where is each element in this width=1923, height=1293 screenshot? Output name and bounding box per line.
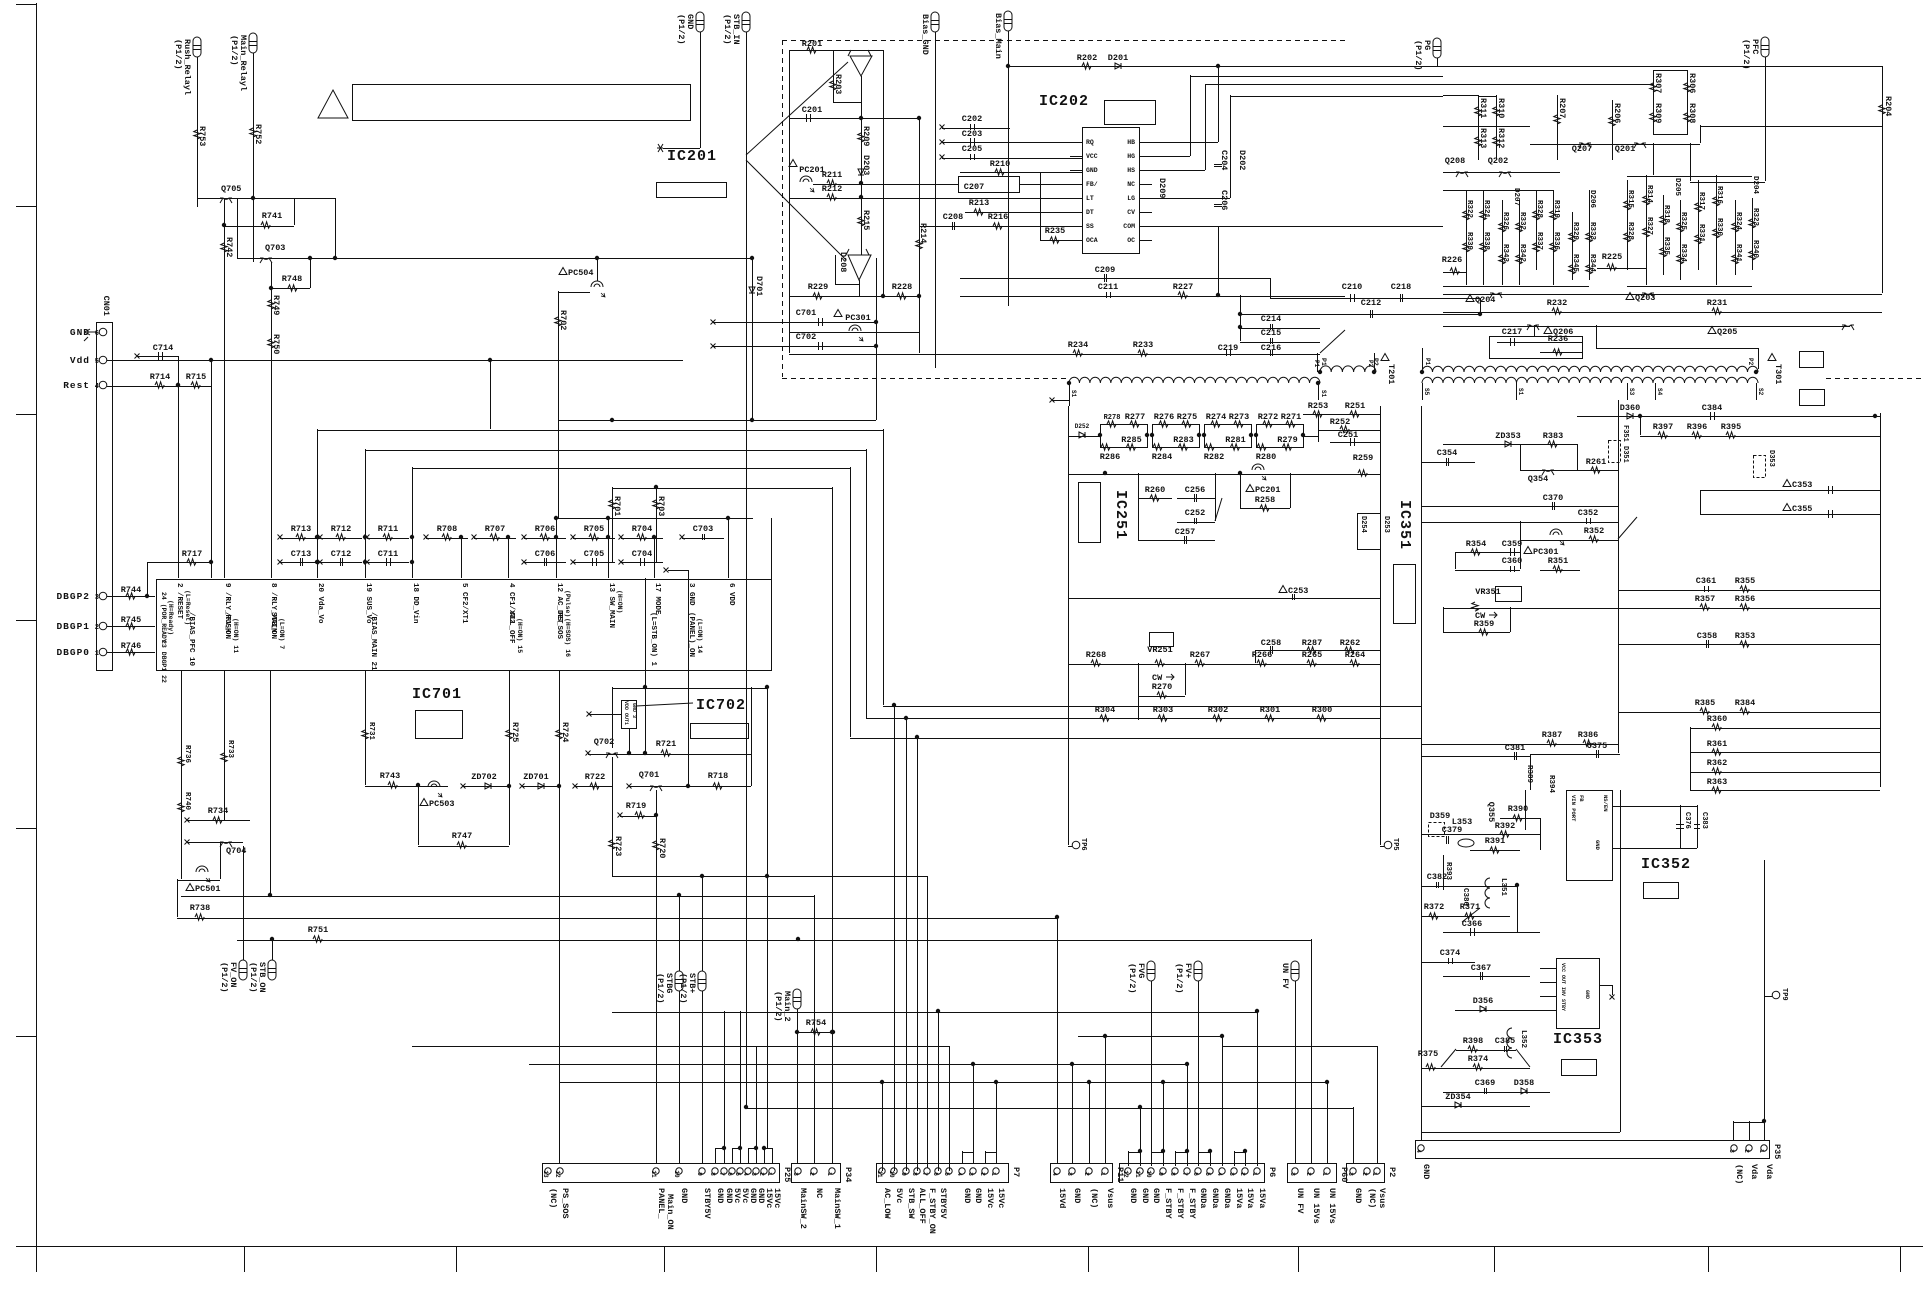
- svg-text:7: 7: [718, 1172, 725, 1176]
- svg-text:R702: R702: [558, 310, 568, 330]
- svg-text:R285: R285: [1121, 435, 1141, 445]
- svg-text:GND: GND: [1086, 167, 1098, 174]
- svg-text:GND: GND: [679, 1188, 689, 1203]
- svg-text:D356: D356: [1473, 996, 1493, 1006]
- svg-text:STB_SW: STB_SW: [906, 1188, 916, 1220]
- svg-text:R714: R714: [150, 372, 170, 382]
- svg-text:4: 4: [1415, 1149, 1422, 1153]
- svg-text:15Vc: 15Vc: [996, 1188, 1006, 1208]
- svg-text:8: 8: [709, 1172, 716, 1176]
- svg-text:TP9: TP9: [1780, 988, 1788, 1001]
- svg-text:Bias_Main: Bias_Main: [993, 13, 1003, 59]
- svg-text:C379: C379: [1442, 825, 1462, 835]
- svg-text:R703: R703: [656, 496, 666, 516]
- svg-text:P6: P6: [1267, 1167, 1277, 1177]
- svg-text:12: 12: [554, 1170, 561, 1178]
- svg-text:3: 3: [1347, 1172, 1354, 1176]
- svg-text:F_STBY: F_STBY: [1175, 1188, 1185, 1220]
- svg-text:C256: C256: [1185, 485, 1205, 495]
- svg-text:R264: R264: [1345, 650, 1365, 660]
- svg-text:C376: C376: [1683, 812, 1691, 829]
- svg-text:R362: R362: [1707, 758, 1727, 768]
- svg-text:D204: D204: [1751, 176, 1759, 195]
- svg-text:Q204: Q204: [1475, 295, 1495, 305]
- svg-text:12: 12: [1122, 1170, 1129, 1178]
- svg-text:4: 4: [95, 383, 99, 391]
- svg-text:C210: C210: [1342, 282, 1362, 292]
- svg-text:F351 D351: F351 D351: [1621, 425, 1629, 463]
- svg-text:R392: R392: [1495, 821, 1515, 831]
- svg-text:P2: P2: [1387, 1167, 1397, 1177]
- svg-text:R707: R707: [485, 524, 505, 534]
- svg-text:2: 2: [1743, 1149, 1750, 1153]
- svg-text:15Va: 15Va: [1257, 1188, 1267, 1208]
- svg-text:S1: S1: [1070, 390, 1077, 398]
- svg-text:GND: GND: [962, 1188, 972, 1203]
- svg-text:R261: R261: [1586, 457, 1606, 467]
- svg-text:R300: R300: [1312, 705, 1332, 715]
- svg-text:C353: C353: [1792, 480, 1812, 490]
- svg-text:DBGP2: DBGP2: [56, 591, 90, 602]
- svg-text:C381: C381: [1505, 743, 1525, 753]
- svg-text:5: 5: [1204, 1172, 1211, 1176]
- svg-text:R723: R723: [613, 836, 623, 856]
- svg-text:R383: R383: [1543, 431, 1563, 441]
- svg-text:C366: C366: [1462, 919, 1482, 929]
- svg-text:R203: R203: [833, 74, 843, 94]
- svg-text:R705: R705: [584, 524, 604, 534]
- svg-text:R360: R360: [1707, 714, 1727, 724]
- svg-text:R268: R268: [1086, 650, 1106, 660]
- svg-text:R283: R283: [1173, 435, 1193, 445]
- svg-text:R226: R226: [1442, 255, 1462, 265]
- svg-text:UN FV: UN FV: [1280, 963, 1290, 989]
- svg-text:R232: R232: [1547, 298, 1567, 308]
- svg-text:COM: COM: [1123, 223, 1135, 230]
- svg-text:Q201: Q201: [1615, 144, 1635, 154]
- svg-text:Q705: Q705: [221, 184, 241, 194]
- svg-text:PC201: PC201: [1255, 485, 1281, 495]
- svg-text:C375: C375: [1587, 741, 1607, 751]
- svg-text:18 DD_Vin: 18 DD_Vin: [411, 583, 419, 624]
- svg-text:(P1/2): (P1/2): [229, 35, 239, 66]
- svg-text:GND: GND: [1128, 1188, 1138, 1203]
- svg-text:C711: C711: [378, 549, 398, 559]
- svg-text:PANEL_: PANEL_: [656, 1188, 666, 1220]
- svg-text:24 (POR_READY: 24 (POR_READY: [160, 592, 167, 643]
- svg-text:VCC: VCC: [1086, 153, 1098, 160]
- svg-text:GNDa: GNDa: [1222, 1188, 1232, 1208]
- svg-text:R390: R390: [1508, 804, 1528, 814]
- svg-text:R751: R751: [308, 925, 328, 935]
- svg-text:Q202: Q202: [1488, 156, 1508, 166]
- svg-text:Q355: Q355: [1486, 802, 1496, 822]
- svg-text:C705: C705: [584, 549, 604, 559]
- svg-text:R287: R287: [1302, 638, 1322, 648]
- svg-text:ZD702: ZD702: [471, 772, 497, 782]
- svg-text:R280: R280: [1256, 452, 1276, 462]
- svg-text:R228: R228: [892, 282, 912, 292]
- svg-text:C203: C203: [962, 129, 982, 139]
- svg-text:R750: R750: [271, 334, 281, 354]
- svg-text:C212: C212: [1361, 298, 1381, 308]
- svg-text:R260: R260: [1145, 485, 1165, 495]
- svg-text:HG: HG: [1127, 153, 1135, 160]
- svg-text:Q208: Q208: [1445, 156, 1465, 166]
- svg-text:R387: R387: [1542, 730, 1562, 740]
- svg-text:R753: R753: [197, 126, 207, 146]
- svg-text:GNDa: GNDa: [1210, 1188, 1220, 1208]
- svg-text:3: 3: [1066, 1172, 1073, 1176]
- svg-text:2: 2: [1083, 1172, 1090, 1176]
- svg-text:C206: C206: [1219, 190, 1229, 210]
- svg-text:IC351: IC351: [1396, 500, 1413, 550]
- svg-text:R231: R231: [1707, 298, 1727, 308]
- svg-text:10: 10: [673, 1170, 680, 1178]
- svg-text:8: 8: [911, 1172, 918, 1176]
- svg-text:10: 10: [888, 1170, 895, 1178]
- svg-text:P2: P2: [1747, 358, 1754, 366]
- svg-text:C704: C704: [632, 549, 652, 559]
- svg-text:C257: C257: [1175, 527, 1195, 537]
- svg-text:R354: R354: [1466, 539, 1486, 549]
- svg-text:PC504: PC504: [568, 268, 594, 278]
- svg-text:R207: R207: [1557, 98, 1567, 118]
- svg-text:D202: D202: [1237, 150, 1247, 170]
- svg-text:GND: GND: [70, 327, 90, 338]
- svg-text:GND 3: GND 3: [631, 703, 637, 718]
- svg-text:D254: D254: [1359, 516, 1367, 533]
- svg-text:R745: R745: [121, 615, 141, 625]
- svg-text:NS/EN: NS/EN: [1602, 795, 1609, 812]
- svg-text:R394: R394: [1547, 775, 1555, 794]
- svg-text:R355: R355: [1735, 576, 1755, 586]
- svg-text:S3: S3: [1628, 388, 1635, 396]
- svg-text:R303: R303: [1153, 705, 1173, 715]
- svg-text:(L=STB_ON) 1: (L=STB_ON) 1: [649, 612, 657, 667]
- svg-text:2: 2: [95, 624, 99, 632]
- svg-text:R236: R236: [1548, 334, 1568, 344]
- svg-text:R701: R701: [612, 496, 622, 516]
- svg-text:R209: R209: [861, 126, 871, 146]
- svg-text:UN 15Vs: UN 15Vs: [1327, 1188, 1337, 1224]
- svg-text:C253: C253: [1288, 586, 1308, 596]
- svg-text:(P1/2): (P1/2): [678, 973, 688, 1004]
- svg-text:GND: GND: [1594, 840, 1601, 851]
- svg-text:R359: R359: [1474, 619, 1494, 629]
- svg-text:C251: C251: [1338, 430, 1358, 440]
- svg-text:5Vc: 5Vc: [894, 1188, 904, 1203]
- svg-text:15Vc: 15Vc: [985, 1188, 995, 1208]
- svg-text:D252: D252: [1075, 423, 1090, 430]
- svg-text:D358: D358: [1514, 1078, 1534, 1088]
- svg-text:D209: D209: [1157, 178, 1167, 198]
- svg-text:C384: C384: [1702, 403, 1722, 413]
- svg-text:1: 1: [1099, 1172, 1106, 1176]
- svg-text:LT: LT: [1086, 195, 1094, 202]
- svg-text:GND: GND: [1353, 1188, 1363, 1203]
- svg-text:R743: R743: [380, 771, 400, 781]
- svg-text:R374: R374: [1468, 1054, 1488, 1064]
- svg-text:ALL_OFF: ALL_OFF: [507, 612, 515, 644]
- svg-text:S5: S5: [1423, 388, 1430, 396]
- svg-text:6: 6: [95, 330, 99, 338]
- svg-text:IC353: IC353: [1553, 1031, 1603, 1048]
- svg-text:ZD701: ZD701: [523, 772, 549, 782]
- svg-text:R704: R704: [632, 524, 652, 534]
- svg-text:S4: S4: [1656, 388, 1663, 396]
- svg-text:C714: C714: [153, 343, 173, 353]
- svg-text:UN 15Vs: UN 15Vs: [1311, 1188, 1321, 1224]
- svg-text:C352: C352: [1578, 508, 1598, 518]
- svg-text:STBY5V: STBY5V: [938, 1188, 948, 1220]
- svg-text:R706: R706: [535, 524, 555, 534]
- svg-text:C215: C215: [1261, 328, 1281, 338]
- svg-text:NC: NC: [814, 1188, 824, 1198]
- svg-text:R233: R233: [1133, 340, 1153, 350]
- svg-text:Rest: Rest: [63, 380, 90, 391]
- svg-text:C370: C370: [1543, 493, 1563, 503]
- svg-text:S1: S1: [1320, 390, 1327, 398]
- svg-text:R259: R259: [1353, 453, 1373, 463]
- svg-text:15Va: 15Va: [1245, 1188, 1255, 1208]
- svg-text:FB/: FB/: [1086, 181, 1098, 188]
- svg-text:IC202: IC202: [1039, 93, 1089, 110]
- svg-text:R749: R749: [271, 295, 281, 315]
- svg-text:C214: C214: [1261, 314, 1281, 324]
- svg-text:P7: P7: [1011, 1167, 1021, 1177]
- svg-text:C383: C383: [1700, 812, 1708, 829]
- svg-text:3: 3: [1289, 1172, 1296, 1176]
- svg-text:Vsus: Vsus: [1105, 1188, 1115, 1208]
- svg-text:4: 4: [956, 1172, 963, 1176]
- svg-text:R741: R741: [262, 211, 282, 221]
- svg-text:R304: R304: [1095, 705, 1115, 715]
- svg-text:VR251: VR251: [1147, 645, 1173, 655]
- svg-text:R275: R275: [1177, 412, 1197, 422]
- svg-text:STBY5V: STBY5V: [702, 1188, 712, 1220]
- svg-text:C211: C211: [1098, 282, 1118, 292]
- svg-text:10: 10: [1145, 1170, 1152, 1178]
- svg-text:MainSW_2: MainSW_2: [798, 1188, 808, 1229]
- svg-text:CN01: CN01: [101, 296, 111, 316]
- svg-text:D205: D205: [1673, 178, 1681, 197]
- svg-text:R718: R718: [708, 771, 728, 781]
- svg-text:2 /RESET: 2 /RESET: [175, 583, 183, 620]
- svg-text:R286: R286: [1100, 452, 1120, 462]
- svg-text:6: 6: [726, 1172, 733, 1176]
- svg-text:D201: D201: [1108, 53, 1128, 63]
- svg-text:R267: R267: [1190, 650, 1210, 660]
- svg-text:GND: GND: [973, 1188, 983, 1203]
- svg-text:(L=ON) 14: (L=ON) 14: [696, 618, 703, 653]
- svg-text:C354: C354: [1437, 448, 1457, 458]
- svg-text:IC352: IC352: [1641, 856, 1691, 873]
- svg-text:(L=ON) 7: (L=ON) 7: [278, 618, 285, 649]
- svg-text:C204: C204: [1219, 150, 1229, 170]
- svg-text:1: 1: [1251, 1172, 1258, 1176]
- svg-text:3: 3: [750, 1172, 757, 1176]
- svg-text:3: 3: [967, 1172, 974, 1176]
- svg-text:1: 1: [990, 1172, 997, 1176]
- svg-text:(P1/2): (P1/2): [1127, 963, 1137, 994]
- svg-text:C209: C209: [1095, 265, 1115, 275]
- svg-text:R712: R712: [331, 524, 351, 534]
- svg-text:R385: R385: [1695, 698, 1715, 708]
- svg-text:13: 13: [542, 1170, 549, 1178]
- svg-text:C355: C355: [1792, 504, 1812, 514]
- svg-text:R375: R375: [1418, 1049, 1438, 1059]
- svg-text:DT: DT: [1086, 209, 1094, 216]
- svg-text:/FV_ON: /FV_ON: [223, 612, 231, 639]
- svg-text:R386: R386: [1578, 730, 1598, 740]
- svg-text:PC501: PC501: [195, 884, 221, 894]
- svg-text:(P1/2): (P1/2): [676, 14, 686, 45]
- svg-text:11: 11: [1134, 1170, 1141, 1178]
- svg-text:R719: R719: [626, 801, 646, 811]
- svg-text:F_STBY_ON: F_STBY_ON: [927, 1188, 937, 1234]
- svg-text:(H=ON) 15: (H=ON) 15: [516, 618, 523, 653]
- svg-text:R754: R754: [806, 1018, 826, 1028]
- svg-text:R352: R352: [1584, 526, 1604, 536]
- svg-text:F_STBY: F_STBY: [1187, 1188, 1197, 1220]
- svg-text:R713: R713: [291, 524, 311, 534]
- svg-text:LG: LG: [1127, 195, 1135, 202]
- svg-text:2: 2: [1361, 1172, 1368, 1176]
- svg-text:4: 4: [1051, 1172, 1058, 1176]
- svg-text:R202: R202: [1077, 53, 1097, 63]
- svg-text:C374: C374: [1440, 948, 1460, 958]
- svg-text:(H=ON): (H=ON): [616, 590, 623, 613]
- svg-text:R282: R282: [1204, 452, 1224, 462]
- svg-text:R251: R251: [1345, 401, 1365, 411]
- svg-text:3: 3: [792, 1172, 799, 1176]
- svg-text:R708: R708: [437, 524, 457, 534]
- svg-text:C702: C702: [796, 332, 816, 342]
- svg-text:C252: C252: [1185, 508, 1205, 518]
- svg-text:R235: R235: [1045, 226, 1065, 236]
- svg-text:P35: P35: [1772, 1144, 1782, 1159]
- svg-text:R715: R715: [186, 372, 206, 382]
- svg-text:Vda: Vda: [1764, 1164, 1774, 1179]
- svg-text:C358: C358: [1697, 631, 1717, 641]
- svg-text:6: 6: [1192, 1172, 1199, 1176]
- svg-text:ALL_OFF: ALL_OFF: [917, 1188, 927, 1224]
- svg-text:R391: R391: [1485, 836, 1505, 846]
- svg-text:R351: R351: [1548, 556, 1568, 566]
- svg-text:R212: R212: [822, 184, 842, 194]
- svg-text:R265: R265: [1302, 650, 1322, 660]
- svg-text:NC: NC: [1127, 181, 1135, 188]
- svg-text:R721: R721: [656, 739, 676, 749]
- svg-text:9: 9: [1157, 1172, 1164, 1176]
- svg-text:D360: D360: [1620, 403, 1640, 413]
- svg-text:R384: R384: [1735, 698, 1755, 708]
- svg-text:/BIAS_PFC 10: /BIAS_PFC 10: [187, 612, 195, 667]
- svg-text:R274: R274: [1206, 412, 1226, 422]
- svg-text:D253: D253: [1382, 516, 1390, 533]
- svg-text:(P1/2): (P1/2): [248, 962, 258, 993]
- svg-text:D701: D701: [754, 276, 764, 296]
- svg-text:9: 9: [696, 1172, 703, 1176]
- svg-text:UN FV: UN FV: [1295, 1188, 1305, 1214]
- svg-text:R258: R258: [1255, 495, 1275, 505]
- svg-text:C202: C202: [962, 114, 982, 124]
- svg-text:C361: C361: [1696, 576, 1716, 586]
- svg-text:GND: GND: [1140, 1188, 1150, 1203]
- svg-text:13 SW_MAIN: 13 SW_MAIN: [607, 583, 615, 628]
- svg-text:D203: D203: [861, 155, 871, 175]
- svg-text:D353: D353: [1767, 450, 1775, 467]
- svg-text:P1: P1: [1313, 360, 1320, 368]
- svg-text:1: 1: [1758, 1149, 1765, 1153]
- svg-text:R740: R740: [183, 792, 191, 811]
- svg-text:R284: R284: [1152, 452, 1172, 462]
- svg-text:R742: R742: [224, 237, 234, 257]
- svg-text:HB: HB: [1127, 139, 1135, 146]
- svg-text:GND: GND: [1421, 1164, 1431, 1179]
- svg-text:Q354: Q354: [1528, 474, 1548, 484]
- svg-text:Bias_GND: Bias_GND: [920, 14, 930, 55]
- svg-text:R746: R746: [121, 641, 141, 651]
- svg-text:23 DBGP1 22: 23 DBGP1 22: [160, 640, 167, 683]
- svg-text:R211: R211: [822, 170, 842, 180]
- svg-text:Vsus: Vsus: [1377, 1188, 1387, 1208]
- svg-text:(P1/2): (P1/2): [1741, 39, 1751, 70]
- svg-text:T301: T301: [1773, 364, 1783, 384]
- svg-text:GND: GND: [1584, 990, 1590, 999]
- svg-text:4: 4: [1216, 1172, 1223, 1176]
- svg-text:(P1/2): (P1/2): [722, 14, 732, 45]
- svg-text:PS_SOS: PS_SOS: [560, 1188, 570, 1219]
- svg-text:R356: R356: [1735, 594, 1755, 604]
- svg-text:SS: SS: [1086, 223, 1094, 230]
- svg-text:3: 3: [95, 594, 99, 602]
- svg-text:T201: T201: [1386, 364, 1396, 384]
- svg-text:R717: R717: [182, 549, 202, 559]
- svg-text:CV: CV: [1127, 209, 1135, 216]
- svg-text:P1: P1: [1424, 358, 1431, 366]
- svg-text:GND: GND: [1151, 1188, 1161, 1203]
- svg-text:2: 2: [1239, 1172, 1246, 1176]
- svg-text:R725: R725: [510, 722, 520, 742]
- svg-text:15Vd: 15Vd: [1057, 1188, 1067, 1208]
- svg-text:P1: P1: [1320, 358, 1327, 366]
- svg-text:R216: R216: [988, 212, 1008, 222]
- svg-text:R720: R720: [657, 838, 667, 858]
- svg-text:9: 9: [900, 1172, 907, 1176]
- svg-text:5: 5: [95, 358, 99, 366]
- svg-text:(NC): (NC): [1367, 1188, 1377, 1208]
- svg-text:(P1/2): (P1/2): [173, 39, 183, 70]
- svg-text:R733: R733: [226, 740, 234, 759]
- svg-text:C701: C701: [796, 308, 816, 318]
- svg-text:OCA: OCA: [1086, 237, 1098, 244]
- svg-text:VIN PORT: VIN PORT: [1570, 795, 1577, 822]
- svg-text:ZD353: ZD353: [1495, 431, 1521, 441]
- svg-text:C703: C703: [693, 524, 713, 534]
- svg-text:2: 2: [1305, 1172, 1312, 1176]
- svg-text:TP5: TP5: [1391, 838, 1399, 851]
- svg-text:R738: R738: [190, 903, 210, 913]
- svg-text:R262: R262: [1340, 638, 1360, 648]
- svg-text:6 VDD: 6 VDD: [727, 583, 735, 606]
- svg-text:IC702: IC702: [696, 697, 746, 714]
- svg-text:S1: S1: [1517, 388, 1524, 396]
- svg-text:15Vc: 15Vc: [772, 1188, 782, 1208]
- svg-text:L351: L351: [1499, 878, 1507, 897]
- svg-text:/BIAS_MAIN 21: /BIAS_MAIN 21: [369, 612, 377, 671]
